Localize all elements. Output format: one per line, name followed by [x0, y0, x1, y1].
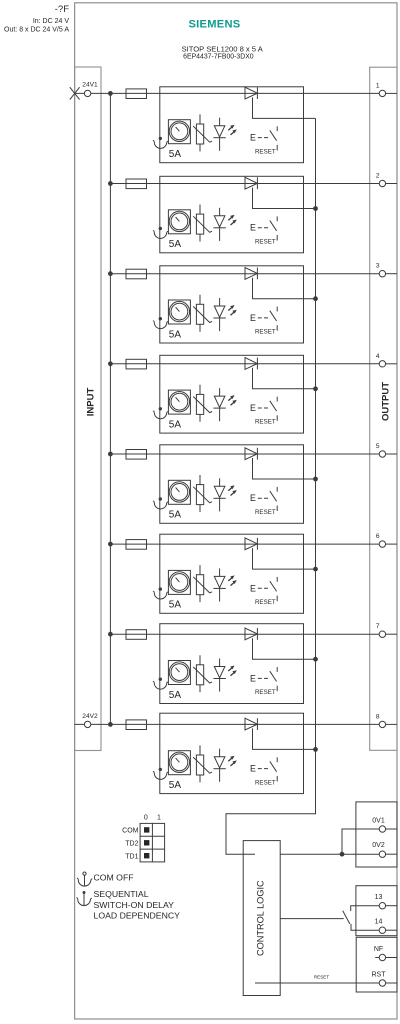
svg-text:NF: NF [374, 946, 383, 953]
wire reset join channel 6 [253, 548, 318, 571]
terminal 24V1 [70, 82, 126, 100]
adjust symbol channel 6 [153, 587, 168, 599]
svg-text:RST: RST [372, 972, 387, 979]
LED channel 4 [213, 388, 236, 421]
adjust symbol channel 5 [153, 497, 168, 509]
adjust symbol channel 2 [153, 227, 168, 239]
junction bus channel 4 [108, 361, 113, 366]
LED channel 2 [213, 208, 236, 241]
13/14 box [356, 886, 397, 936]
wire through channel 4 [160, 363, 304, 365]
adjust symbol channel 1 [153, 137, 168, 149]
diode D1 [245, 87, 257, 99]
potentiometer dial 5A channel 3 [168, 300, 190, 324]
svg-text:E: E [250, 133, 256, 143]
terminal 7 output [376, 623, 397, 637]
terminal 1 output [376, 82, 397, 96]
wire RST [255, 975, 379, 984]
svg-text:24V1: 24V1 [82, 82, 98, 89]
svg-text:RESET: RESET [255, 689, 276, 696]
legend COM OFF [77, 872, 134, 886]
wire output channel 2 [304, 183, 380, 185]
wire reset join channel 8 [253, 728, 318, 751]
fuse F1 [126, 89, 147, 99]
svg-text:14: 14 [375, 919, 383, 926]
LED channel 5 [213, 478, 236, 511]
reset switch channel 4 [250, 397, 277, 426]
wire through channel 2 [160, 183, 304, 185]
wire output channel 5 [304, 453, 380, 455]
reset switch channel 3 [250, 307, 277, 336]
wire through channel 5 [160, 453, 304, 455]
input bus wire [109, 93, 111, 724]
svg-text:E: E [250, 313, 256, 323]
diode D4 [245, 358, 257, 370]
channel 3 box [160, 266, 304, 343]
potentiometer dial 5A channel 6 [168, 570, 190, 594]
junction bus channel 5 [108, 452, 113, 457]
junction bus channel 8 [108, 722, 113, 727]
wire input channel 7 [110, 633, 159, 635]
terminal 8 output [376, 713, 397, 727]
terminal 0V1 [372, 817, 397, 832]
svg-text:RESET: RESET [255, 148, 276, 155]
channel 1 box [160, 87, 304, 163]
terminal 5 output [376, 443, 397, 457]
svg-text:5A: 5A [169, 510, 182, 521]
potentiometer dial 5A channel 7 [168, 661, 190, 685]
wire reset join channel 1 [253, 97, 316, 118]
wire relay actuation [280, 918, 344, 920]
wire 0V feed [280, 829, 379, 857]
wire input channel 4 [110, 363, 159, 365]
diode D7 [245, 628, 257, 640]
svg-text:0V2: 0V2 [372, 842, 385, 849]
terminal 6 output [376, 533, 397, 547]
channel 8 box [160, 713, 304, 793]
LED channel 6 [213, 568, 236, 601]
svg-text:RESET: RESET [255, 779, 276, 786]
junction bus channel 1 [108, 91, 113, 96]
wire input channel 5 [110, 453, 159, 455]
wire input channel 1 [126, 92, 160, 94]
svg-text:TD2: TD2 [125, 841, 138, 848]
terminal 13 [375, 894, 397, 909]
svg-text:SITOP SEL1200 8 x 5 A: SITOP SEL1200 8 x 5 A [182, 44, 264, 53]
varistor channel 1 [193, 114, 212, 151]
adjust symbol channel 3 [153, 317, 168, 329]
terminal 14 [375, 919, 397, 934]
wire input channel 6 [110, 543, 159, 545]
svg-text:COM OFF: COM OFF [94, 872, 134, 882]
legend sequential switch-on [76, 889, 180, 920]
channel 7 box [160, 624, 304, 704]
NF/RST box [356, 937, 397, 992]
reset switch channel 7 [250, 667, 277, 696]
wire output channel 3 [304, 273, 380, 275]
svg-text:E: E [250, 673, 256, 683]
fuse F4 [126, 359, 147, 369]
potentiometer dial 5A channel 4 [168, 390, 190, 414]
wire reset join channel 5 [253, 458, 318, 481]
svg-text:24V2: 24V2 [82, 713, 98, 720]
svg-text:E: E [250, 764, 256, 774]
varistor channel 5 [193, 475, 212, 512]
fuse F3 [126, 269, 147, 279]
svg-text:SEQUENTIAL: SEQUENTIAL [94, 889, 149, 899]
junction bus channel 6 [108, 542, 113, 547]
svg-text:CONTROL LOGIC: CONTROL LOGIC [256, 880, 266, 956]
LED channel 8 [213, 749, 236, 782]
wire reset join channel 7 [253, 638, 318, 661]
svg-text:0V1: 0V1 [372, 817, 385, 824]
potentiometer dial 5A channel 2 [168, 210, 190, 234]
channel 4 box [160, 355, 304, 433]
wire input channel 2 [110, 183, 159, 185]
adjust symbol channel 8 [153, 768, 168, 780]
svg-text:RESET: RESET [255, 599, 276, 606]
potentiometer dial 5A channel 5 [168, 480, 190, 504]
diode D6 [245, 538, 257, 550]
svg-text:5A: 5A [169, 329, 182, 340]
svg-text:5A: 5A [169, 690, 182, 701]
border frame [75, 3, 397, 1019]
svg-text:6: 6 [376, 533, 380, 540]
terminal NF [374, 946, 397, 961]
potentiometer dial 5A channel 1 [168, 120, 190, 144]
junction bus channel 7 [108, 632, 113, 637]
LED channel 3 [213, 298, 236, 331]
diode D3 [245, 268, 257, 280]
diode D5 [245, 448, 257, 460]
adjust symbol channel 4 [153, 407, 168, 419]
control logic U1 [243, 841, 280, 996]
reset switch channel 2 [250, 216, 277, 245]
svg-text:13: 13 [375, 894, 383, 901]
svg-text:5A: 5A [169, 239, 182, 250]
svg-text:2: 2 [376, 173, 380, 180]
svg-text:COM: COM [122, 828, 139, 835]
wire output channel 1 [304, 92, 380, 94]
wire through channel 6 [160, 543, 304, 545]
varistor channel 8 [193, 745, 212, 782]
svg-text:-?F: -?F [55, 4, 69, 15]
svg-text:RESET: RESET [255, 419, 276, 426]
svg-text:5A: 5A [169, 600, 182, 611]
svg-text:RESET: RESET [255, 509, 276, 516]
svg-text:E: E [250, 403, 256, 413]
reset switch channel 5 [250, 487, 277, 516]
terminal 2 output [376, 173, 397, 187]
channel 6 box [160, 534, 304, 613]
channel 2 box [160, 176, 304, 253]
wire output channel 8 [304, 723, 380, 725]
terminal 3 output [376, 263, 397, 277]
wire through channel 7 [160, 633, 304, 635]
DIP switch block [122, 814, 164, 862]
svg-text:1: 1 [376, 82, 380, 89]
0V box [356, 802, 397, 867]
channel 5 box [160, 445, 304, 524]
svg-text:E: E [250, 223, 256, 233]
diode D8 [245, 718, 257, 730]
svg-text:SIEMENS: SIEMENS [188, 19, 240, 31]
wire reset join channel 4 [253, 368, 318, 391]
wire input channel 3 [110, 273, 159, 275]
wire reset join channel 3 [253, 278, 318, 301]
reset bus wire [226, 118, 316, 854]
svg-text:0: 0 [144, 814, 148, 821]
svg-text:TD1: TD1 [125, 853, 138, 860]
wire through channel 1 [160, 92, 304, 94]
svg-text:E: E [250, 583, 256, 593]
wire reset join channel 2 [253, 188, 318, 211]
svg-text:1: 1 [157, 814, 161, 821]
svg-text:LOAD DEPENDENCY: LOAD DEPENDENCY [94, 910, 181, 920]
wire output channel 4 [304, 363, 380, 365]
reset switch channel 6 [250, 577, 277, 606]
svg-text:5A: 5A [169, 149, 182, 160]
svg-text:5: 5 [376, 443, 380, 450]
fuse F5 [126, 450, 147, 460]
wire output channel 6 [304, 543, 380, 545]
svg-text:In: DC 24 V: In: DC 24 V [33, 18, 70, 25]
wire output channel 7 [304, 633, 380, 635]
LED channel 1 [213, 118, 236, 151]
fuse F8 [126, 720, 147, 730]
fuse F2 [126, 179, 147, 189]
LED channel 7 [213, 659, 236, 692]
svg-text:INPUT: INPUT [85, 388, 96, 417]
svg-text:RESET: RESET [314, 975, 330, 980]
junction bus channel 3 [108, 271, 113, 276]
terminal RST [372, 972, 398, 987]
svg-text:8: 8 [376, 713, 380, 720]
svg-text:Out: 8 x DC 24 V/5 A: Out: 8 x DC 24 V/5 A [4, 26, 69, 33]
svg-text:E: E [250, 493, 256, 503]
svg-text:5A: 5A [169, 780, 182, 791]
svg-text:4: 4 [376, 353, 380, 360]
svg-text:7: 7 [376, 623, 380, 630]
svg-text:SWITCH-ON DELAY: SWITCH-ON DELAY [94, 900, 175, 910]
terminal 24V2 [75, 713, 126, 728]
varistor channel 3 [193, 295, 212, 332]
svg-text:6EP4437-7FB00-3DX0: 6EP4437-7FB00-3DX0 [183, 53, 254, 60]
fuse F6 [126, 540, 147, 550]
potentiometer dial 5A channel 8 [168, 751, 190, 775]
svg-text:RESET: RESET [255, 238, 276, 245]
terminal 4 output [376, 353, 397, 367]
reset switch channel 8 [250, 757, 277, 786]
adjust symbol channel 7 [153, 678, 168, 690]
fuse F7 [126, 630, 147, 640]
varistor channel 7 [193, 655, 212, 692]
varistor channel 2 [193, 205, 212, 242]
svg-text:OUTPUT: OUTPUT [380, 382, 391, 421]
wire through channel 3 [160, 273, 304, 275]
svg-text:RESET: RESET [255, 329, 276, 336]
INPUT rail box [75, 67, 101, 751]
svg-text:5A: 5A [169, 419, 182, 430]
terminal 0V2 [372, 842, 397, 857]
reset switch channel 1 [250, 126, 277, 155]
varistor channel 6 [193, 565, 212, 602]
OUTPUT rail box [370, 67, 397, 750]
junction bus channel 2 [108, 181, 113, 186]
wire through channel 8 [160, 723, 304, 725]
varistor channel 4 [193, 385, 212, 422]
relay contact 13-14 [343, 906, 379, 931]
diode D2 [245, 177, 257, 189]
wire input channel 8 [126, 723, 160, 725]
svg-text:3: 3 [376, 263, 380, 270]
